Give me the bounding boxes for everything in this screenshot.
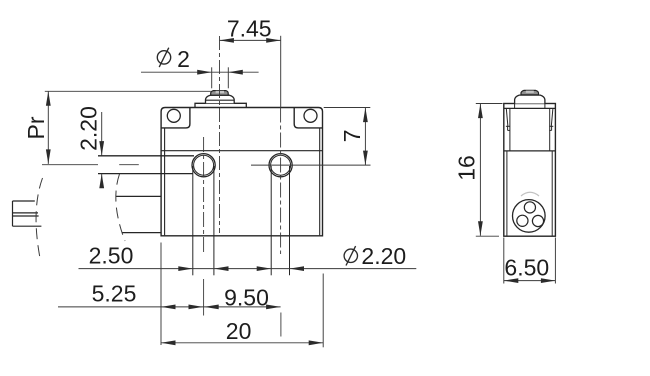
wire bottom edge — [98, 173, 193, 175]
extension line right pin top — [280, 36, 282, 108]
7 top extension line — [324, 107, 371, 109]
svg-text:9.50: 9.50 — [224, 284, 269, 310]
svg-text:2.20: 2.20 — [76, 106, 102, 151]
wire hole bottom right — [532, 215, 543, 226]
phantom arc inner — [116, 174, 125, 241]
svg-text:Pr: Pr — [23, 116, 49, 139]
plunger rubber cap (gray) — [211, 91, 229, 96]
side view mid separation line — [504, 150, 556, 152]
left terminal hole inner circle — [194, 155, 214, 175]
left ear hole — [167, 109, 180, 122]
svg-text:5.25: 5.25 — [92, 280, 137, 306]
wire lug bottom edge — [13, 225, 42, 227]
svg-text:7: 7 — [339, 129, 365, 142]
plunger boss plate — [195, 103, 246, 107]
left inner wall line — [164, 128, 166, 235]
right ear hole — [304, 109, 317, 122]
left latch clip — [506, 108, 508, 126]
dome edge ticks in band — [514, 104, 516, 109]
right terminal hole inner circle — [271, 155, 291, 175]
svg-text:6.50: 6.50 — [504, 254, 549, 280]
wire hole bottom left — [517, 215, 528, 226]
16 bottom extension line — [476, 235, 499, 237]
phantom arc outer — [36, 178, 42, 258]
left pin centerline lower extension — [203, 279, 205, 316]
side plunger rubber cap — [521, 90, 539, 95]
wire centerline dash — [119, 164, 139, 166]
left pin centerline — [203, 137, 205, 254]
cable entry circle — [513, 200, 546, 233]
side lower inner walls — [506, 151, 508, 236]
7 bottom extension line (circle centerline) — [251, 164, 371, 166]
right inner wall line — [319, 128, 321, 235]
plunger dome separation line — [206, 99, 235, 101]
bent wire lower edge — [122, 232, 162, 234]
faint cavity arc — [521, 192, 539, 196]
left pin left edge — [192, 166, 194, 275]
svg-text:2: 2 — [177, 46, 190, 72]
svg-text:16: 16 — [453, 155, 479, 181]
plunger centerline — [219, 36, 221, 233]
cap separation line — [161, 150, 322, 152]
right latch clip — [551, 108, 553, 126]
switch body outline front view — [161, 108, 322, 236]
right pin right edge — [289, 166, 291, 275]
side view top band bottom edge — [504, 107, 556, 109]
svg-text:2.50: 2.50 — [89, 243, 134, 269]
side view outline — [504, 104, 556, 237]
side upper inner walls — [509, 108, 511, 150]
right pin centerline lower extension — [280, 313, 282, 337]
wire hole top — [524, 202, 535, 213]
wire lug left edge — [12, 201, 14, 226]
plunger collar and dome — [206, 95, 235, 103]
dimension diameter 2 — [157, 51, 170, 64]
right mounting ear — [294, 108, 322, 128]
bent wire upper edge — [116, 195, 162, 197]
wire lug top edge — [13, 200, 35, 202]
svg-text:20: 20 — [226, 318, 252, 344]
wire lug middle band — [13, 212, 39, 214]
right terminal hole outer circle — [269, 154, 292, 177]
wire top edge — [98, 155, 194, 157]
right pin centerline — [280, 108, 282, 255]
body edge extension lines dashed — [160, 243, 162, 346]
Pr bottom extension line — [42, 164, 98, 166]
16 top extension line — [476, 103, 503, 105]
svg-text:2.20: 2.20 — [361, 243, 406, 269]
svg-text:7.45: 7.45 — [227, 16, 272, 42]
left terminal hole outer circle — [192, 154, 215, 177]
side plunger dome — [515, 95, 545, 103]
6.50 extension lines — [503, 238, 505, 284]
left mounting ear — [161, 108, 190, 128]
plunger extension lines — [211, 67, 213, 88]
right pin left edge — [270, 166, 272, 275]
left pin right edge — [213, 166, 215, 275]
Pr top extension line — [45, 90, 211, 92]
